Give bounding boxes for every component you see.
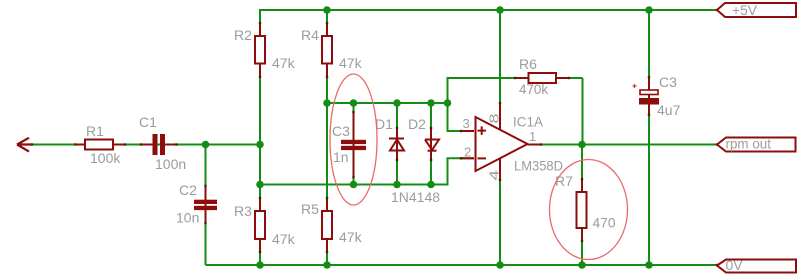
svg-text:R1: R1: [86, 123, 104, 139]
node pin4 bottom rail junction: [496, 261, 504, 269]
svg-text:R6: R6: [519, 56, 537, 72]
capacitor C3 1n: [341, 140, 366, 150]
capacitor C3 4u7 polarized: [640, 90, 658, 95]
capacitor C2: [194, 200, 217, 210]
wire R1 pins: [75, 144, 125, 146]
plus mark C3 4u7: [633, 84, 637, 88]
svg-text:C2: C2: [179, 182, 197, 198]
svg-text:R5: R5: [301, 201, 319, 217]
node D2 bottom junction: [427, 181, 435, 189]
svg-text:47k: 47k: [272, 55, 296, 71]
node D1 top junction: [393, 99, 401, 107]
svg-text:IC1A: IC1A: [513, 114, 544, 130]
node C3 top junction: [350, 99, 358, 107]
resistor R6: [529, 73, 557, 83]
node R7 bottom rail junction: [578, 261, 586, 269]
node output/feedback/R7 junction: [578, 141, 586, 149]
diode D2: [425, 140, 439, 151]
svg-text:100n: 100n: [155, 156, 186, 172]
svg-text:3: 3: [463, 116, 470, 131]
svg-text:2: 2: [464, 145, 471, 160]
wire pin4 ground vertical: [499, 159, 501, 266]
wire R4 pins: [326, 23, 328, 77]
svg-text:8: 8: [487, 114, 502, 124]
node C3 bottom junction: [350, 181, 358, 189]
svg-text:C1: C1: [139, 114, 157, 130]
resistor R4: [322, 36, 332, 64]
wire R4/R5 vertical column: [326, 10, 328, 265]
wire feedback right vertical: [582, 78, 584, 145]
wire pin2 horizontal and down: [448, 158, 475, 185]
wire input net horizontal: [31, 144, 260, 146]
svg-text:1n: 1n: [333, 149, 349, 165]
wire R3 pins: [259, 198, 261, 252]
node pin8 top rail junction: [496, 6, 504, 14]
op-amp minus input symbol: [478, 157, 487, 159]
node R3 bottom rail junction: [256, 261, 264, 269]
wire top clamp net y=103: [327, 102, 448, 104]
svg-text:R7: R7: [555, 173, 573, 189]
wire C1 pins: [141, 144, 177, 146]
node R5 bottom rail junction: [323, 261, 331, 269]
wire R5 pins: [326, 198, 328, 252]
svg-text:D1: D1: [375, 116, 393, 132]
node C3 4u7 top rail junction: [645, 6, 653, 14]
node input/C2 junction: [202, 141, 210, 149]
supply flag +5V: [717, 3, 796, 17]
wire C2 pins: [205, 186, 207, 223]
svg-text:+5V: +5V: [732, 2, 758, 18]
svg-text:4u7: 4u7: [657, 102, 681, 118]
resistor R7: [577, 192, 587, 228]
wire pin8 stub: [499, 103, 501, 129]
svg-text:C3: C3: [659, 74, 677, 90]
wire op-amp output to rpm out: [528, 144, 718, 146]
resistor R3: [255, 211, 265, 239]
capacitor C1: [153, 134, 166, 155]
svg-text:R3: R3: [234, 203, 252, 219]
svg-text:LM358D: LM358D: [514, 158, 563, 174]
svg-text:R4: R4: [301, 27, 319, 43]
node middle wire left junction: [256, 181, 264, 189]
node D1 bottom junction: [393, 181, 401, 189]
node C3 4u7 bottom rail junction: [645, 261, 653, 269]
wire pin8 supply vertical: [499, 10, 501, 129]
resistor R1: [85, 140, 113, 150]
wire top +5V rail: [260, 9, 717, 11]
highlight ellipse around C3 1n: [330, 74, 377, 205]
diode D1: [389, 139, 404, 151]
node top wire R4 junction: [323, 99, 331, 107]
svg-text:rpm out: rpm out: [726, 135, 772, 151]
svg-text:1N4148: 1N4148: [391, 189, 440, 205]
svg-text:0V: 0V: [726, 257, 744, 273]
ground flag 0V: [717, 260, 796, 273]
wire R6 pins: [515, 77, 569, 79]
node input/R2R3 junction: [256, 141, 264, 149]
svg-text:D2: D2: [408, 116, 426, 132]
node R4 top rail junction: [323, 6, 331, 14]
wire C3 1n branch: [353, 103, 355, 185]
wire C3 4u7 pins: [648, 77, 650, 115]
wire R7 pins: [581, 179, 583, 241]
wire D2 branch: [430, 103, 432, 185]
svg-text:4: 4: [487, 170, 502, 181]
op-amp plus input symbol: [478, 126, 487, 134]
wire feedback horizontal y=78: [447, 77, 583, 79]
svg-text:470k: 470k: [519, 81, 549, 97]
resistor R2: [255, 36, 265, 64]
node feedback/pin3 junction: [444, 99, 452, 107]
wire pin1 output stub: [528, 144, 542, 146]
wire C3 4u7 branch: [648, 10, 650, 265]
svg-text:47k: 47k: [339, 55, 363, 71]
svg-text:R2: R2: [234, 27, 252, 43]
wire bottom 0V rail: [206, 264, 718, 266]
svg-text:47k: 47k: [339, 229, 363, 245]
wire D1 branch: [396, 103, 398, 185]
wire pin2 stub: [461, 157, 474, 159]
wire pin3 horizontal: [447, 130, 475, 132]
highlight ellipse around R7: [550, 160, 628, 260]
resistor R5: [322, 211, 332, 239]
wire R2 pins: [259, 23, 261, 77]
svg-text:1: 1: [529, 129, 536, 144]
node D2 top junction: [427, 99, 435, 107]
wire middle clamp net y=184.5: [260, 184, 449, 186]
red pin stubs over green wires: [75, 23, 649, 252]
wire C2 branch vertical: [205, 145, 207, 266]
svg-text:47k: 47k: [272, 231, 296, 247]
svg-text:470: 470: [593, 215, 616, 231]
wire feedback vertical to pin3: [447, 78, 449, 131]
svg-text:C3: C3: [332, 123, 350, 139]
output flag rpm out: [717, 138, 796, 152]
wire C3 1n pins: [353, 112, 355, 177]
op-amp IC1A: [476, 117, 528, 171]
input arrow: [17, 138, 32, 152]
wire D1 pins: [396, 128, 398, 160]
svg-text:10n: 10n: [176, 210, 199, 226]
wire R7 branch: [581, 145, 583, 266]
wire R2/R3 vertical column: [259, 9, 261, 265]
wire pin3 stub: [461, 130, 474, 132]
wire pin4 stub: [499, 159, 501, 181]
wire D2 pins: [430, 128, 432, 160]
svg-text:100k: 100k: [90, 150, 121, 166]
wire-to-pin dark joints: [31, 9, 718, 266]
